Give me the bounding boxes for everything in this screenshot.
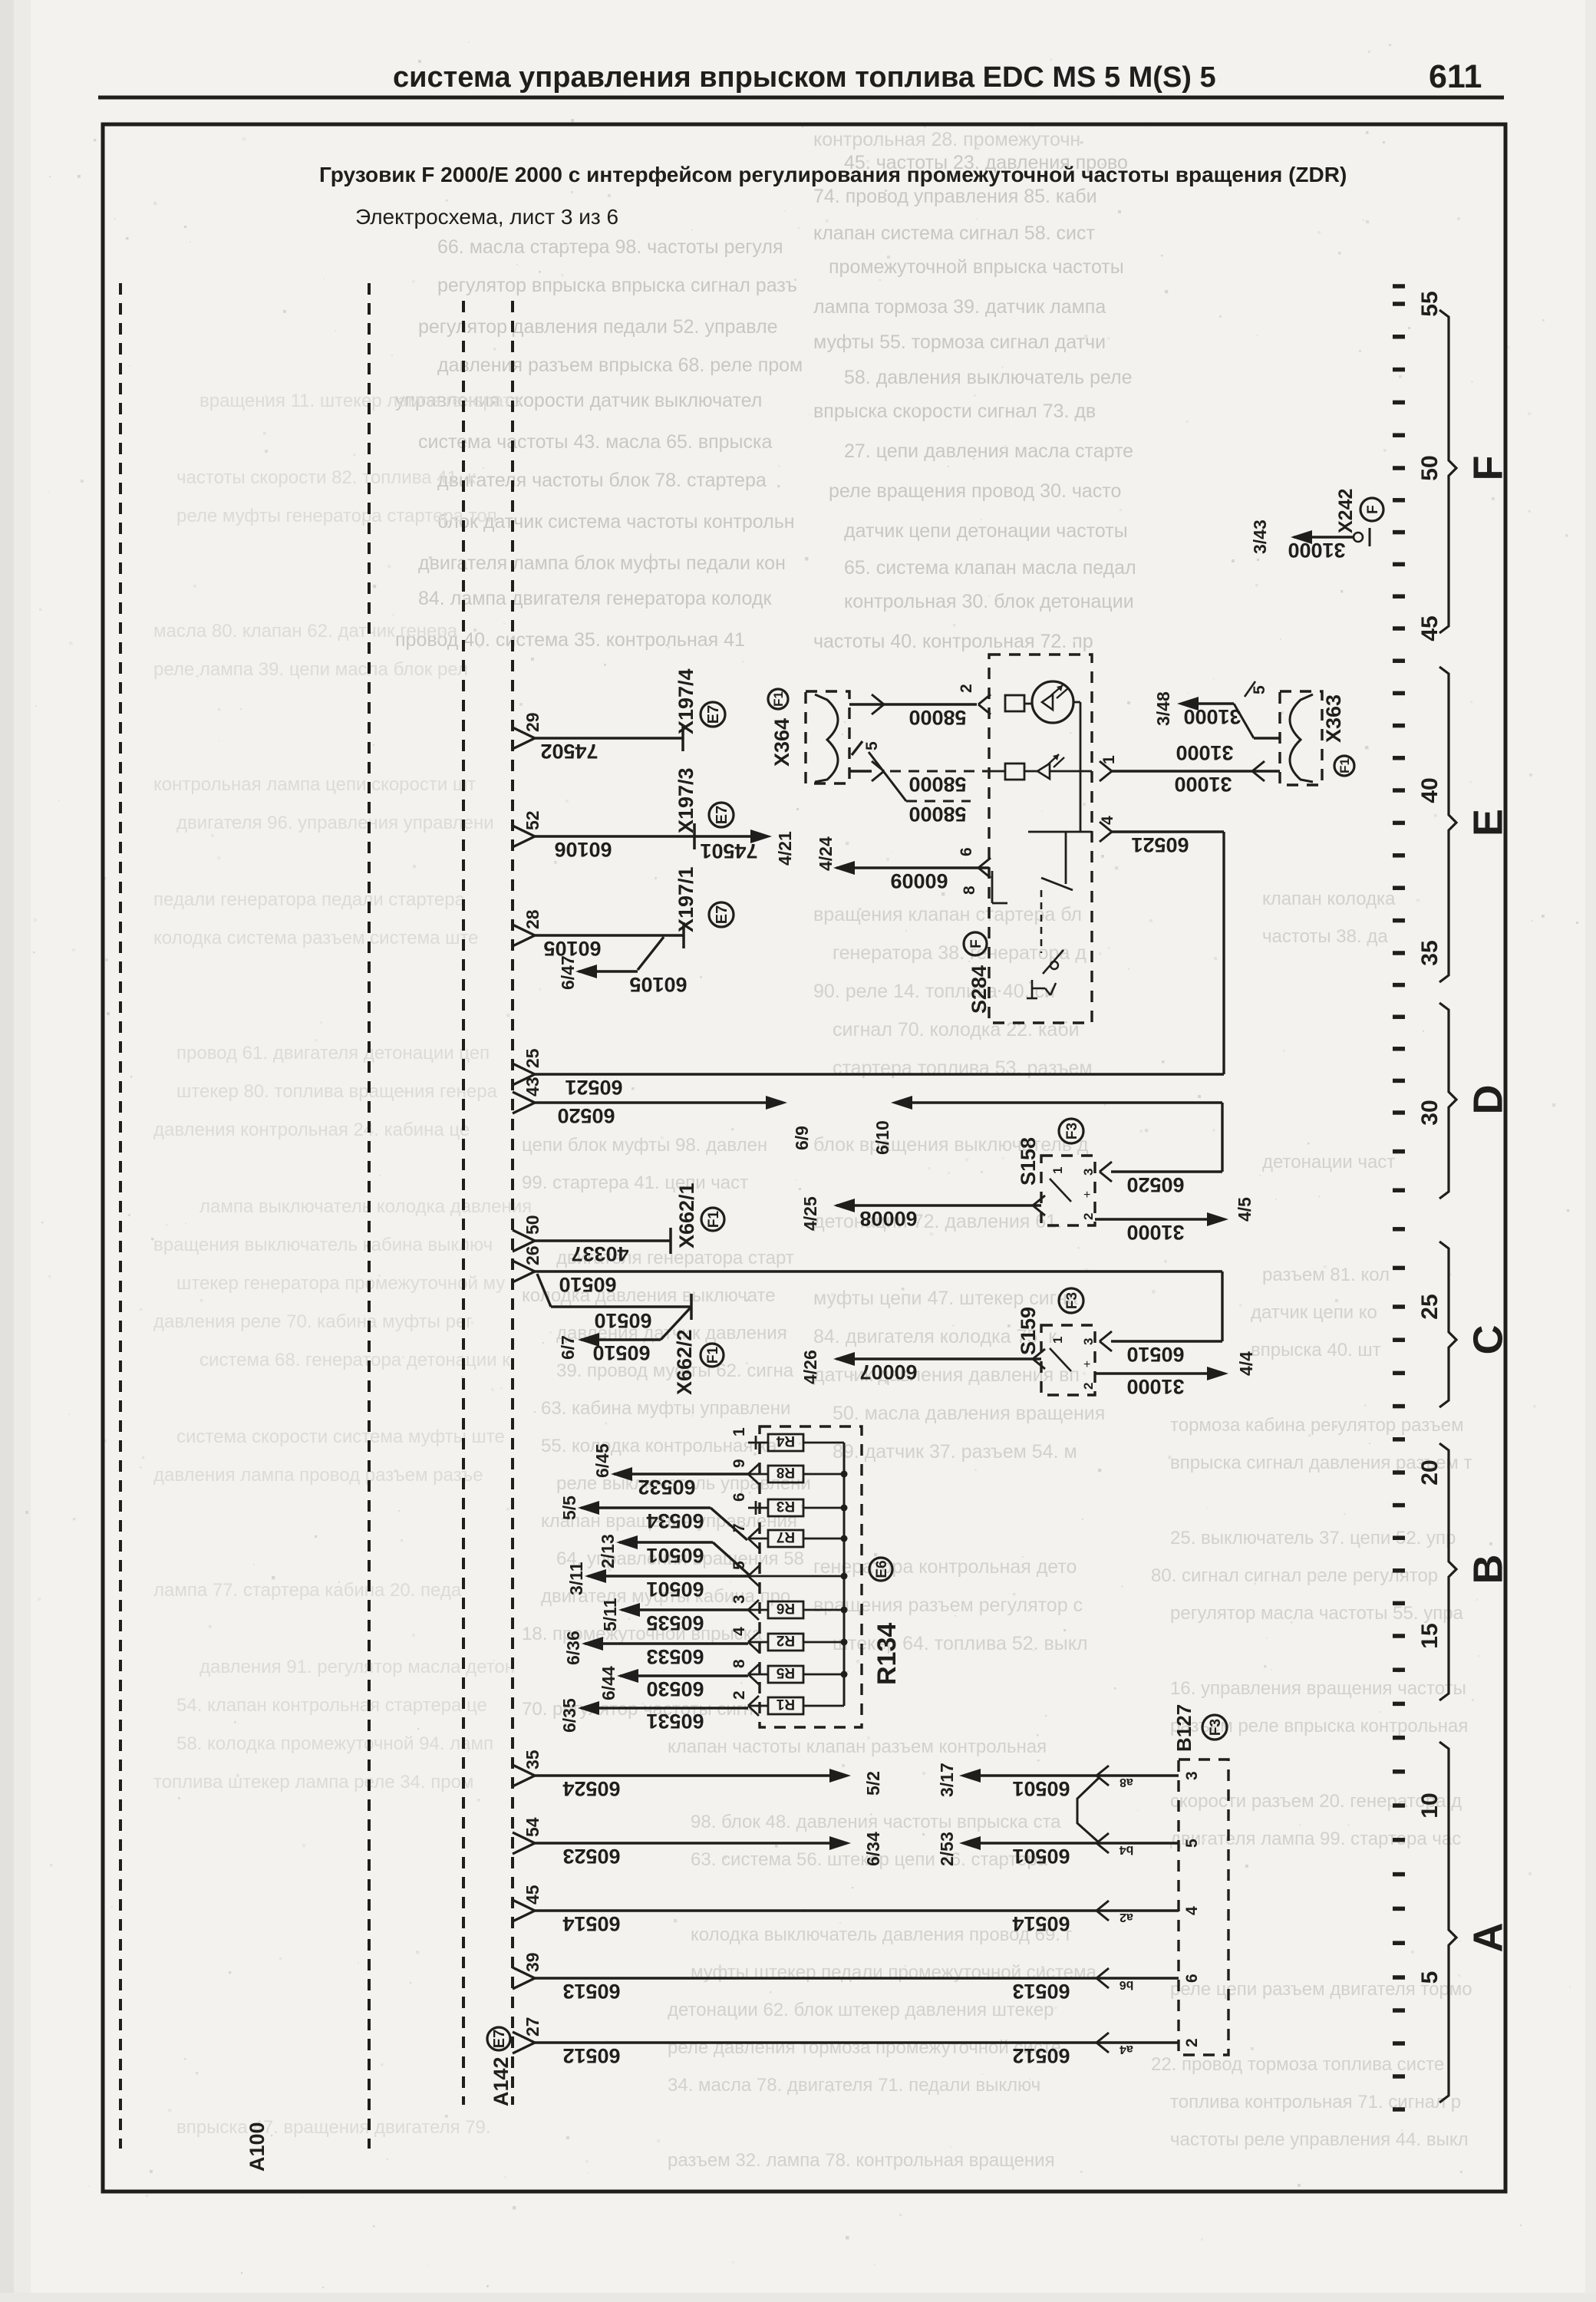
svg-text:датчик цепи ко: датчик цепи ко [1251, 1302, 1377, 1323]
wires into R134 with sheet refs [614, 1473, 748, 1475]
wire 60501 from 2/53 to B127 pin 5 [959, 1836, 981, 1850]
svg-text:R7: R7 [777, 1529, 795, 1545]
svg-text:4: 4 [730, 1627, 748, 1636]
svg-text:X662/1: X662/1 [675, 1182, 698, 1248]
svg-text:система управления впрыском то: система управления впрыском топлива EDC … [393, 61, 1216, 94]
svg-text:контрольная 30. блок детонации: контрольная 30. блок детонации [844, 591, 1134, 612]
svg-text:X197/4: X197/4 [674, 668, 697, 734]
svg-text:60512: 60512 [562, 2044, 620, 2067]
sensor B127 box [1179, 1759, 1228, 2055]
svg-text:6: 6 [1183, 1974, 1201, 1983]
svg-text:60514: 60514 [1012, 1912, 1070, 1935]
branch wire 60510 to 6/7 [661, 1307, 691, 1340]
svg-text:4/24: 4/24 [816, 836, 836, 871]
svg-text:60520: 60520 [1126, 1173, 1184, 1196]
S284 switch common [1065, 832, 1067, 884]
wire 60007 to sheet ref 4/26 [1033, 1349, 1045, 1359]
svg-text:8: 8 [961, 886, 978, 895]
svg-text:66. масла стартера 98. частоты: 66. масла стартера 98. частоты регуля [437, 236, 783, 258]
svg-text:масла 80. клапан 62. датчик ге: масла 80. клапан 62. датчик генера [153, 621, 458, 641]
svg-text:3/17: 3/17 [937, 1763, 957, 1797]
svg-text:клапан система сигнал 58. сист: клапан система сигнал 58. сист [813, 223, 1095, 244]
svg-text:4: 4 [1183, 1906, 1201, 1915]
svg-text:10: 10 [1417, 1792, 1443, 1818]
svg-text:вращения разъем регулятор с: вращения разъем регулятор с [813, 1595, 1083, 1616]
wire 60510 riser to S159 [1221, 1271, 1223, 1341]
code circle F3 at B127 [1202, 1715, 1227, 1740]
X364 pin 5 and diagonal [852, 741, 862, 755]
svg-text:60510: 60510 [559, 1273, 616, 1296]
ruler zone braces and letters A-F [1439, 310, 1456, 633]
svg-text:60523: 60523 [562, 1845, 620, 1868]
svg-text:F1: F1 [705, 1346, 721, 1364]
svg-text:43: 43 [523, 1077, 542, 1097]
svg-text:52: 52 [523, 810, 542, 830]
wire 58000 X364 pin2 to S284 [849, 703, 977, 705]
svg-text:60514: 60514 [562, 1912, 620, 1935]
svg-text:F: F [968, 939, 984, 948]
connector X197/3 [693, 823, 696, 849]
code circle E7 at X197/3 [709, 803, 734, 827]
svg-text:15: 15 [1417, 1623, 1443, 1648]
svg-text:58. колодка промежуточной 94.: 58. колодка промежуточной 94. ламп [176, 1733, 493, 1754]
svg-text:A142: A142 [490, 2056, 513, 2106]
svg-text:60521: 60521 [565, 1076, 622, 1099]
svg-text:60501: 60501 [646, 1544, 704, 1567]
S284 indicator lamp [1032, 681, 1073, 723]
svg-text:генератора контрольная дето: генератора контрольная дето [813, 1556, 1077, 1578]
svg-text:детонации част: детонации част [1262, 1152, 1395, 1172]
svg-text:реле давления тормоза промежут: реле давления тормоза промежуточной сист… [668, 2037, 1061, 2058]
svg-text:50: 50 [1417, 455, 1443, 480]
svg-text:R4: R4 [776, 1433, 795, 1449]
control unit A100 left dashed boundary [119, 283, 122, 2149]
svg-text:E7: E7 [705, 705, 722, 724]
svg-text:F3: F3 [1064, 1123, 1080, 1139]
A142 pin 45 stub [513, 1900, 535, 1911]
wire 60520 to sheet ref 6/9 [535, 1101, 767, 1103]
svg-text:54: 54 [523, 1817, 542, 1837]
svg-text:611: 611 [1429, 58, 1482, 95]
svg-text:60501: 60501 [1012, 1845, 1070, 1868]
svg-text:5/2: 5/2 [863, 1771, 883, 1796]
svg-text:R6: R6 [777, 1600, 795, 1616]
svg-text:1: 1 [1050, 1337, 1065, 1344]
svg-text:3/48: 3/48 [1153, 691, 1173, 726]
svg-text:a2: a2 [1120, 1911, 1133, 1924]
svg-text:детонации 62. блок штекер давл: детонации 62. блок штекер давления штеке… [668, 2000, 1054, 2020]
wire 60501 from 3/17 to B127 pin 3 [959, 1769, 981, 1783]
svg-text:давления лампа провод разъем р: давления лампа провод разъем разъе [153, 1465, 483, 1486]
svg-text:X662/2: X662/2 [673, 1329, 696, 1395]
svg-text:40: 40 [1417, 777, 1443, 803]
X363 pin 5 label [1245, 681, 1255, 697]
code circle F3 at S159 [1059, 1288, 1083, 1313]
svg-text:клапан частоты клапан разъем к: клапан частоты клапан разъем контрольная [668, 1736, 1047, 1757]
wire 60521 vertical riser [1222, 832, 1225, 1074]
svg-text:4/4: 4/4 [1236, 1351, 1256, 1376]
svg-text:R1: R1 [776, 1696, 795, 1712]
svg-text:60501: 60501 [1012, 1777, 1070, 1800]
svg-text:6/35: 6/35 [559, 1698, 579, 1733]
svg-text:муфты 55. тормоза сигнал датчи: муфты 55. тормоза сигнал датчи [813, 331, 1106, 353]
svg-text:60521: 60521 [1131, 833, 1189, 856]
svg-text:контрольная 28. промежуточн: контрольная 28. промежуточн [813, 129, 1080, 150]
svg-text:4: 4 [1099, 816, 1116, 825]
svg-text:3: 3 [1081, 1169, 1096, 1176]
svg-text:60510: 60510 [594, 1309, 651, 1332]
S159 internal contact [1050, 1348, 1071, 1371]
switch S158 box [1041, 1156, 1095, 1225]
svg-text:89. датчик 37. разъем 54. м: 89. датчик 37. разъем 54. м [833, 1441, 1077, 1463]
svg-text:впрыска 47. вращения двигателя: впрыска 47. вращения двигателя 79. [176, 2117, 491, 2138]
svg-text:R134: R134 [872, 1623, 902, 1685]
svg-text:E6: E6 [874, 1560, 890, 1578]
svg-text:4/5: 4/5 [1235, 1197, 1255, 1222]
svg-text:45: 45 [1417, 615, 1443, 641]
svg-text:1: 1 [1100, 755, 1118, 764]
svg-text:40337: 40337 [571, 1242, 628, 1265]
code circle E6 at R134 [869, 1558, 892, 1581]
svg-text:55: 55 [1417, 291, 1443, 316]
svg-text:60533: 60533 [646, 1645, 704, 1668]
svg-text:60534: 60534 [646, 1509, 704, 1532]
svg-text:C: C [1465, 1325, 1511, 1355]
svg-text:частоты 40. контрольная 72. пр: частоты 40. контрольная 72. пр [813, 631, 1093, 652]
svg-text:60535: 60535 [646, 1611, 704, 1634]
svg-text:давления реле 70. кабина муфты: давления реле 70. кабина муфты рег [153, 1311, 473, 1332]
S284 pin 1 wire 31000 to X363 [1063, 770, 1092, 773]
svg-text:74. провод управления 85. каби: 74. провод управления 85. каби [813, 186, 1097, 207]
svg-text:R2: R2 [777, 1632, 795, 1648]
wire 60513 to B127 pin 6 [535, 1977, 1179, 1979]
svg-text:R5: R5 [776, 1664, 795, 1680]
svg-text:E7: E7 [714, 806, 730, 824]
svg-text:муфты штекер педали промежуточ: муфты штекер педали промежуточной систем… [691, 1962, 1097, 1983]
svg-text:58000: 58000 [908, 773, 966, 796]
svg-text:28: 28 [523, 909, 542, 929]
svg-text:22. провод тормоза топлива сис: 22. провод тормоза топлива систе [1151, 2054, 1444, 2075]
svg-text:4/21: 4/21 [775, 831, 795, 866]
svg-text:58000: 58000 [908, 803, 966, 826]
svg-text:5: 5 [1183, 1839, 1201, 1848]
svg-text:3: 3 [1183, 1771, 1201, 1780]
svg-text:R3: R3 [777, 1498, 795, 1514]
X363 connector symbol [1290, 694, 1313, 782]
svg-text:B: B [1465, 1555, 1511, 1585]
code circle F3 at S158 [1059, 1119, 1083, 1143]
svg-text:вращения выключатель кабина вы: вращения выключатель кабина выключ [153, 1235, 493, 1255]
svg-text:60007: 60007 [859, 1360, 917, 1384]
svg-text:3/11: 3/11 [566, 1562, 586, 1595]
svg-text:31000: 31000 [1174, 773, 1232, 796]
svg-text:30: 30 [1417, 1100, 1443, 1125]
svg-text:8: 8 [730, 1659, 748, 1668]
svg-text:штекер 80. топлива вращения ге: штекер 80. топлива вращения генера [176, 1081, 498, 1102]
svg-text:b4: b4 [1120, 1843, 1134, 1856]
interface A142 left dashed boundary [462, 301, 465, 2105]
svg-text:5: 5 [863, 741, 881, 750]
svg-text:55. колодка контрольная ка: 55. колодка контрольная ка [541, 1436, 777, 1456]
svg-text:провод 61. двигателя детонации: провод 61. двигателя детонации цеп [176, 1043, 490, 1064]
svg-text:двигателя частоты блок 78. ста: двигателя частоты блок 78. стартера [437, 470, 767, 491]
svg-text:регулятор масла частоты 55. уп: регулятор масла частоты 55. упра [1170, 1603, 1464, 1624]
svg-text:60501: 60501 [646, 1578, 704, 1601]
svg-text:регулятор давления педали 52.: регулятор давления педали 52. управле [418, 316, 778, 338]
svg-text:60513: 60513 [562, 1980, 620, 2003]
svg-text:6: 6 [958, 847, 975, 856]
svg-text:Электросхема, лист 3 из 6: Электросхема, лист 3 из 6 [355, 205, 618, 229]
svg-text:генератора 38. генератора д: генератора 38. генератора д [833, 942, 1087, 964]
svg-text:4/26: 4/26 [800, 1350, 820, 1384]
svg-text:тормоза кабина регулятор разъе: тормоза кабина регулятор разъем [1170, 1415, 1464, 1436]
connector X662/2 [690, 1294, 693, 1320]
svg-text:двигателя 96. управления управ: двигателя 96. управления управлени [176, 813, 494, 833]
code circle E7 at X197/4 [701, 702, 725, 727]
svg-text:60532: 60532 [638, 1476, 695, 1499]
code circle F at X242 [1360, 498, 1383, 521]
svg-text:клапан колодка: клапан колодка [1262, 889, 1396, 909]
svg-text:6/36: 6/36 [563, 1631, 583, 1665]
svg-text:2: 2 [1081, 1383, 1096, 1390]
svg-text:1: 1 [1050, 1167, 1065, 1174]
wire 60520 from 6/10 to S158 [891, 1096, 912, 1110]
code circle F1 at X363 [1334, 756, 1354, 776]
svg-text:2: 2 [730, 1690, 748, 1700]
code circle F at S284 [964, 932, 987, 955]
svg-text:система частоты 43. масла 65.: система частоты 43. масла 65. впрыска [418, 431, 772, 453]
svg-text:63. кабина муфты управлени: 63. кабина муфты управлени [541, 1398, 790, 1419]
header rule [98, 96, 1504, 100]
S284 pin 2 [978, 694, 991, 704]
svg-text:a8: a8 [1120, 1776, 1133, 1789]
svg-text:F: F [1465, 456, 1511, 481]
svg-text:3: 3 [730, 1595, 748, 1604]
wire 60521 [535, 1073, 1224, 1075]
wire 74502 [535, 737, 683, 739]
svg-text:60106: 60106 [554, 838, 612, 861]
svg-text:39: 39 [523, 1952, 542, 1972]
harness jog between B127 wires [1077, 1778, 1099, 1842]
code circle E7 at X197/1 [709, 902, 734, 927]
branch wire 60510 [551, 1305, 691, 1308]
svg-text:впрыска 40. шт: впрыска 40. шт [1251, 1340, 1381, 1360]
svg-text:60105: 60105 [629, 973, 687, 996]
svg-text:вращения 11. штекер лампа гене: вращения 11. штекер лампа генерато [199, 391, 522, 411]
svg-text:4/25: 4/25 [800, 1196, 820, 1231]
svg-text:60008: 60008 [859, 1207, 917, 1230]
svg-text:штекер 64. топлива 52. выкл: штекер 64. топлива 52. выкл [833, 1633, 1088, 1654]
svg-text:b6: b6 [1120, 1978, 1134, 1991]
svg-text:контрольная лампа цепи скорост: контрольная лампа цепи скорости шт [153, 774, 476, 795]
svg-text:X197/3: X197/3 [674, 767, 697, 833]
svg-text:90. реле 14. топлива 40. си: 90. реле 14. топлива 40. си [813, 981, 1055, 1002]
X364 connector symbol [815, 694, 838, 782]
connector X364 box [806, 691, 849, 783]
svg-text:X364: X364 [770, 718, 793, 767]
svg-text:99. стартера 41. цепи част: 99. стартера 41. цепи част [522, 1172, 748, 1193]
svg-text:топлива контрольная 71. сигнал: топлива контрольная 71. сигнал р [1170, 2092, 1461, 2112]
branch diagonal to X662/2 [537, 1274, 551, 1307]
S284 LED symbol [1037, 763, 1050, 779]
svg-text:60520: 60520 [557, 1104, 615, 1127]
svg-text:6/44: 6/44 [598, 1666, 618, 1700]
svg-text:детонации 72. давления 61.: детонации 72. давления 61. [813, 1211, 1062, 1232]
A142 pin 29 stub [513, 727, 535, 738]
svg-text:двигателя лампа 99. стартера ч: двигателя лампа 99. стартера час [1170, 1829, 1461, 1849]
svg-text:двигателя лампа блок муфты пед: двигателя лампа блок муфты педали кон [418, 552, 786, 574]
svg-text:Грузовик F 2000/Е 2000 с интер: Грузовик F 2000/Е 2000 с интерфейсом рег… [319, 163, 1347, 186]
switch-lamp unit S284 box [989, 655, 1092, 1023]
svg-text:60510: 60510 [1126, 1343, 1184, 1366]
svg-text:9: 9 [730, 1459, 748, 1468]
wire 60105 [535, 934, 684, 936]
A142 pin 26 stub [513, 1261, 535, 1271]
svg-text:25: 25 [523, 1048, 542, 1068]
svg-text:26: 26 [523, 1245, 542, 1265]
svg-text:A: A [1465, 1923, 1511, 1953]
svg-text:реле лампа 39. цепи масла блок: реле лампа 39. цепи масла блок рел [153, 659, 468, 680]
control unit A100 right dashed boundary [368, 283, 371, 2149]
svg-text:частоты реле управления 44. вы: частоты реле управления 44. выкл [1170, 2129, 1469, 2150]
svg-text:лампа 77. стартера кабина 20.: лампа 77. стартера кабина 20. педа [153, 1580, 462, 1601]
svg-text:74501: 74501 [700, 839, 757, 862]
S284 manual actuator symbol [1031, 980, 1034, 998]
S284 switch linkage dashed [1040, 890, 1043, 953]
svg-text:система скорости система муфты: система скорости система муфты ште [176, 1426, 505, 1447]
svg-text:65. система клапан масла педал: 65. система клапан масла педал [844, 557, 1136, 579]
svg-text:31000: 31000 [1176, 741, 1233, 764]
svg-text:74502: 74502 [540, 740, 598, 763]
svg-text:60531: 60531 [646, 1710, 704, 1733]
S158 internal contact [1050, 1179, 1071, 1202]
svg-text:+: + [1083, 1358, 1090, 1371]
wire 60514 to B127 pin 4 [535, 1909, 1179, 1911]
svg-text:штекер генератора промежуточно: штекер генератора промежуточной му [176, 1273, 505, 1294]
svg-text:реле вращения провод 30. часто: реле вращения провод 30. часто [829, 480, 1121, 502]
X363 wire 31000 to sheet ref 3/48 [1177, 697, 1199, 711]
svg-text:топлива штекер лампа реле 34.: топлива штекер лампа реле 34. пром [153, 1772, 473, 1792]
A142 pin 27 stub [513, 2032, 535, 2043]
svg-text:60512: 60512 [1012, 2044, 1070, 2067]
A142 pin 54 stub [513, 1832, 535, 1843]
svg-text:3: 3 [1081, 1338, 1096, 1345]
wire 40337 [535, 1239, 671, 1242]
connector X363 box [1280, 691, 1322, 785]
svg-text:98. блок 48. давления частоты: 98. блок 48. давления частоты впрыска ст… [691, 1812, 1061, 1832]
svg-text:2: 2 [1081, 1213, 1096, 1220]
svg-text:35: 35 [523, 1750, 542, 1769]
svg-text:X197/1: X197/1 [674, 866, 697, 932]
code circle F1 at X364 [768, 689, 788, 709]
switch S159 box [1041, 1325, 1095, 1395]
svg-text:58000: 58000 [908, 706, 966, 729]
X242 terminal [1354, 533, 1363, 542]
variant dashed wire 58000 [906, 800, 971, 803]
A142 pin 43 stub [513, 1092, 535, 1103]
svg-text:давления разъем впрыска 68. ре: давления разъем впрыска 68. реле пром [437, 355, 803, 376]
svg-text:F: F [1365, 505, 1381, 514]
svg-text:F1: F1 [706, 1210, 722, 1228]
svg-text:X242: X242 [1335, 489, 1357, 533]
A142 pin 25 stub [513, 1064, 535, 1074]
svg-text:31000: 31000 [1183, 705, 1241, 728]
R134 resistors and pins [768, 1434, 803, 1451]
S284 switch lever [1041, 878, 1073, 890]
svg-text:50: 50 [523, 1215, 542, 1235]
svg-text:25: 25 [1417, 1294, 1443, 1319]
R134 bus wire [843, 1443, 846, 1706]
svg-text:регулятор впрыска впрыска сигн: регулятор впрыска впрыска сигнал разъ [437, 275, 797, 296]
code circle F1 at X662/2 [701, 1344, 724, 1367]
svg-text:разъем 32. лампа 78. контрольн: разъем 32. лампа 78. контрольная вращени… [668, 2150, 1055, 2171]
connector X197/1 [682, 922, 685, 948]
svg-text:2: 2 [958, 684, 975, 693]
svg-text:6/7: 6/7 [558, 1335, 578, 1360]
S284 pin 4 wire 60521 [1028, 831, 1092, 833]
svg-text:31000: 31000 [1288, 539, 1345, 562]
svg-text:частоты скорости 82. топлива 4: частоты скорости 82. топлива 41. к [176, 467, 476, 488]
wire 60008 to sheet ref 4/25 [1033, 1196, 1045, 1205]
wire 60106 [535, 835, 694, 837]
A142 pin 39 stub [513, 1967, 535, 1978]
svg-text:E7: E7 [714, 905, 730, 924]
ruler tick marks 1-55 [1393, 2107, 1405, 2112]
svg-text:27: 27 [523, 2017, 542, 2037]
svg-text:5/5: 5/5 [559, 1496, 579, 1520]
svg-text:2/13: 2/13 [598, 1534, 618, 1568]
svg-text:a4: a4 [1120, 2043, 1133, 2056]
svg-text:5: 5 [1417, 1971, 1443, 1984]
wire 74501 to sheet ref 4/21 [694, 835, 752, 837]
X364 lower pin dashed wire 58000 [849, 770, 872, 772]
svg-text:27. цепи давления масла старте: 27. цепи давления масла старте [844, 440, 1133, 462]
svg-text:датчик цепи детонации частоты: датчик цепи детонации частоты [844, 520, 1128, 542]
svg-text:31000: 31000 [1126, 1221, 1184, 1244]
svg-text:+: + [1083, 1189, 1090, 1202]
svg-text:54. клапан контрольная стартер: 54. клапан контрольная стартера це [176, 1695, 487, 1716]
svg-text:педали генератора педали старт: педали генератора педали стартера [153, 889, 466, 910]
svg-text:A100: A100 [246, 2122, 269, 2172]
svg-text:34. масла 78. двигателя 71. пе: 34. масла 78. двигателя 71. педали выклю… [668, 2075, 1040, 2096]
A142 pin 35 stub [513, 1765, 535, 1776]
code circle F1 at X662/1 [701, 1208, 724, 1231]
svg-text:промежуточной впрыска частоты: промежуточной впрыска частоты [829, 256, 1124, 278]
svg-text:2: 2 [1183, 2038, 1201, 2047]
svg-text:60530: 60530 [646, 1677, 704, 1700]
wire 60523 to sheet ref 6/34 [535, 1842, 829, 1844]
S284 lamp resistor [1005, 695, 1024, 711]
svg-text:лампа тормоза 39. датчик лампа: лампа тормоза 39. датчик лампа [813, 296, 1106, 318]
svg-text:лампа выключатель колодка давл: лампа выключатель колодка давления [199, 1196, 532, 1217]
lamp to LED row link [1073, 701, 1080, 704]
A142 code circle E7 [487, 2027, 510, 2050]
svg-text:25. выключатель 37. цепи 52. у: 25. выключатель 37. цепи 52. упр [1170, 1528, 1456, 1548]
svg-text:6/34: 6/34 [863, 1832, 883, 1866]
connector X662/1 [669, 1228, 672, 1254]
wire 60510 into S159 pin 3 [1111, 1340, 1222, 1342]
wire 60512 to B127 pin 2 [535, 2041, 1179, 2043]
wire 31000 to sheet ref 4/4 [1095, 1372, 1209, 1374]
A142 pin 52 stub [513, 826, 535, 836]
svg-text:реле муфты генератора стартера: реле муфты генератора стартера топ [176, 506, 497, 526]
connector X242 stub [1294, 536, 1354, 538]
svg-text:35: 35 [1417, 940, 1443, 965]
svg-text:F3: F3 [1064, 1292, 1080, 1309]
svg-text:60513: 60513 [1012, 1980, 1070, 2003]
svg-text:6/10: 6/10 [872, 1120, 892, 1155]
svg-text:E: E [1465, 809, 1511, 836]
